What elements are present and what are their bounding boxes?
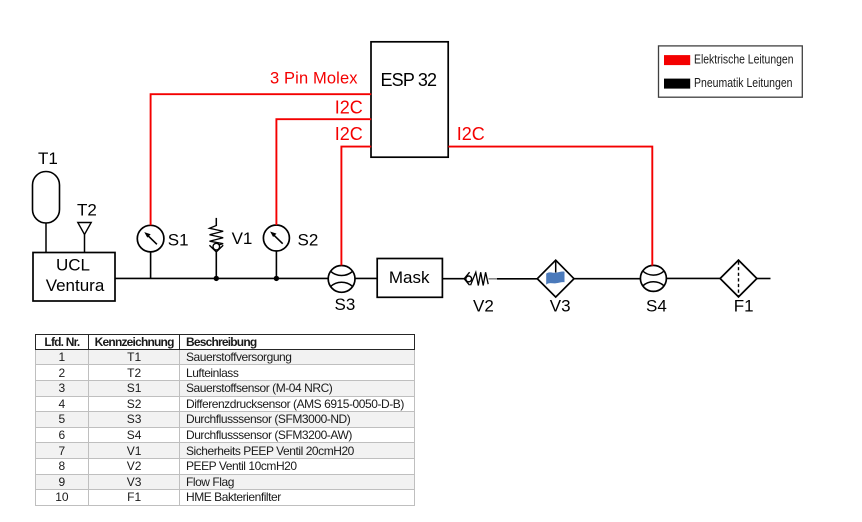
svg-text:UCL: UCL [56,256,90,275]
sensor S4 [640,265,666,315]
wire red I2C ESP32 to S4 [448,147,652,266]
svg-text:T1: T1 [38,149,58,168]
filter F1 [720,260,757,315]
wire S2 stem [275,251,277,278]
svg-text:V2: V2 [473,297,494,316]
Mask box [377,259,442,298]
svg-text:Ventura: Ventura [46,276,105,295]
svg-text:S1: S1 [168,231,189,250]
wire T1 stem [45,223,47,253]
valve V3 flow flag [537,260,574,315]
valve V2 [464,272,494,315]
svg-text:S2: S2 [298,231,319,250]
svg-text:V3: V3 [550,297,571,316]
svg-text:S4: S4 [646,297,667,316]
wire V3 to S4 [574,278,640,280]
sensor S2 [263,225,318,251]
sensor S1 [137,225,188,252]
svg-text:Pneumatik Leitungen: Pneumatik Leitungen [694,76,793,90]
wire V2 to V3 [497,278,537,280]
parts table [35,334,416,506]
svg-text:V1: V1 [232,229,253,248]
svg-text:S3: S3 [335,295,356,314]
svg-text:F1: F1 [734,297,754,316]
svg-text:Elektrische Leitungen: Elektrische Leitungen [694,52,794,66]
wire F1 out [757,278,771,280]
wire Mask to V2 [442,278,464,280]
air inlet T2 [77,201,97,235]
svg-text:Mask: Mask [389,268,430,287]
wire V1 stem [215,252,217,278]
wire T2 stem [84,235,86,254]
wire V2 to V3 gray segment [489,278,498,280]
node junction V1 [214,276,219,281]
UCL Ventura unit [33,253,115,302]
svg-text:3 Pin Molex: 3 Pin Molex [270,69,358,87]
svg-text:I2C: I2C [335,124,363,144]
valve V1 [209,218,252,252]
ESP 32 microcontroller U1 [371,42,448,157]
wire red 3 Pin Molex S1 to ESP32 [151,94,372,225]
wire S1 stem [150,252,152,278]
svg-text:ESP 32: ESP 32 [381,70,438,90]
wire main pneumatic line left [115,277,328,279]
legend box [659,46,803,97]
node junction S2 [274,276,279,281]
wire S4 to F1 [666,277,720,279]
svg-text:T2: T2 [77,201,97,220]
tank T1 [33,149,60,223]
svg-text:I2C: I2C [457,124,485,144]
wire S3 to Mask [355,277,377,279]
svg-text:I2C: I2C [335,98,363,118]
wire red I2C S2 to ESP32 [276,119,371,225]
sensor S3 [328,266,355,314]
wire red I2C S3 to ESP32 [341,147,371,266]
